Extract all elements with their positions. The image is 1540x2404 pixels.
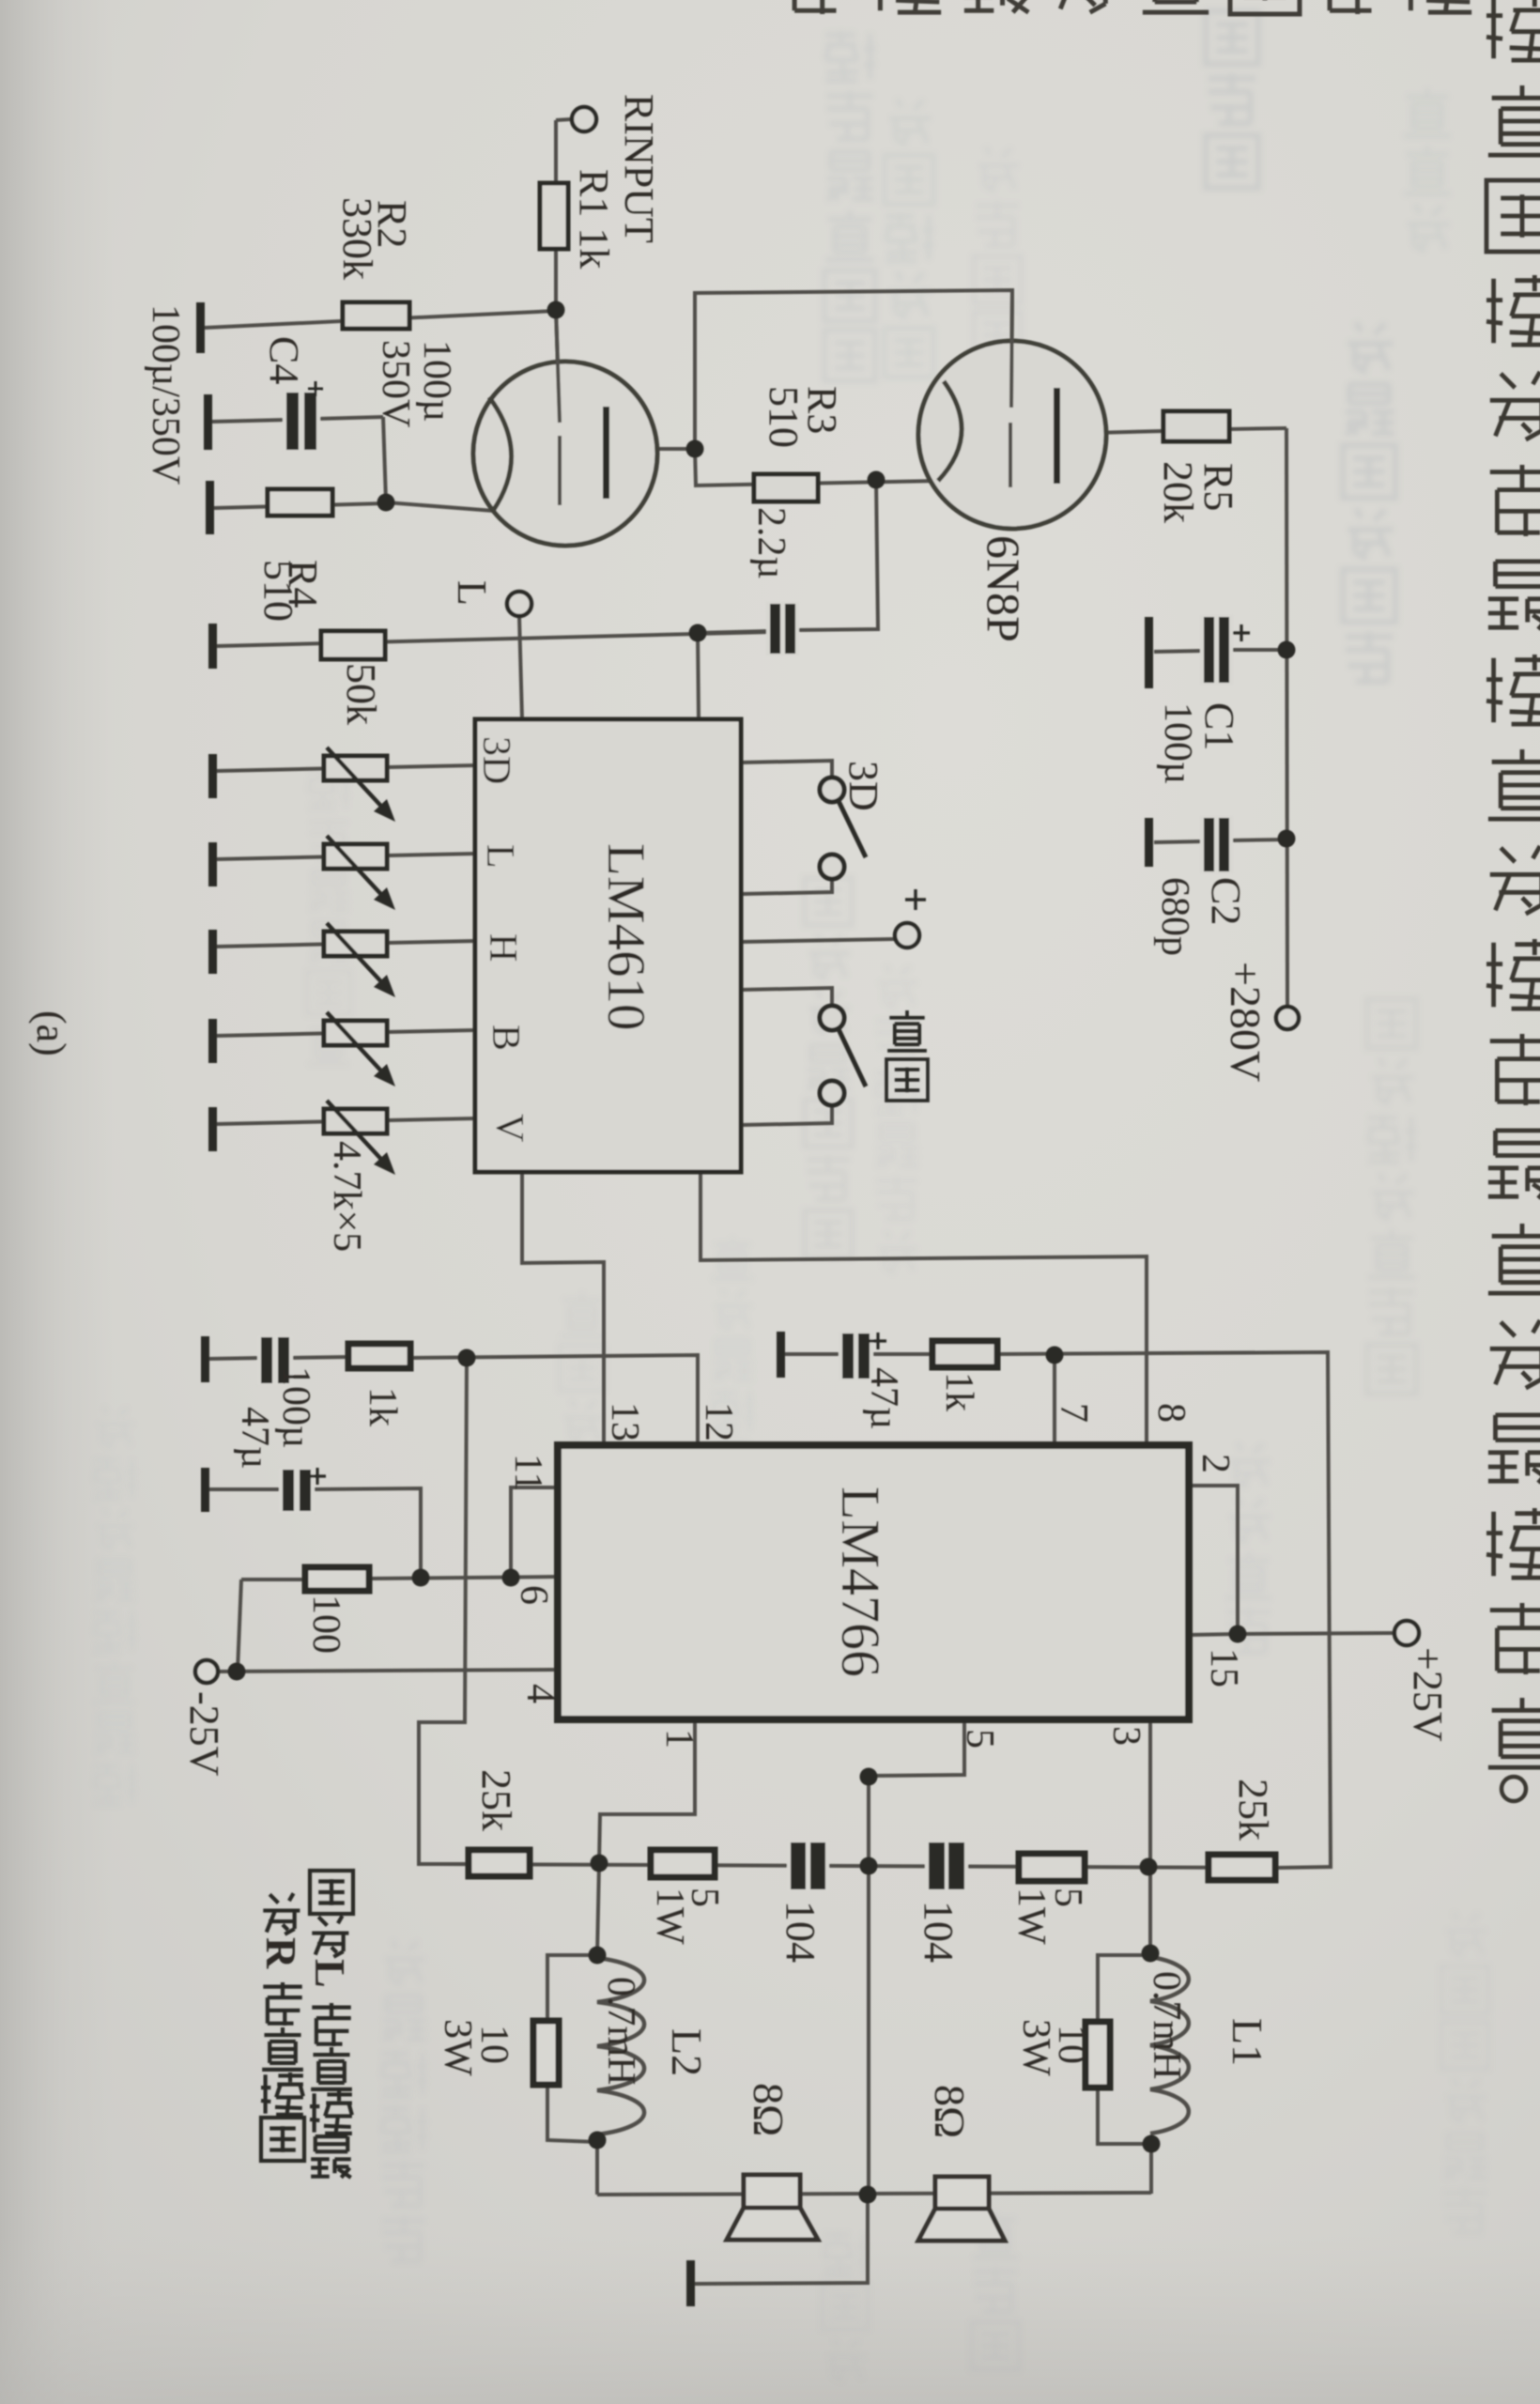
svg-text:2: 2	[1193, 1454, 1237, 1473]
svg-text:1k: 1k	[937, 1372, 980, 1411]
svg-text:LM4766: LM4766	[830, 1487, 891, 1677]
svg-text:510: 510	[761, 386, 807, 448]
svg-text:6N8P: 6N8P	[978, 535, 1030, 642]
svg-text:100: 100	[304, 1595, 347, 1654]
svg-text:47µ: 47µ	[233, 1407, 276, 1469]
svg-text:L2: L2	[663, 2028, 711, 2076]
svg-text:V: V	[487, 1114, 531, 1142]
svg-text:15: 15	[1202, 1648, 1245, 1687]
svg-text:C4: C4	[261, 336, 307, 384]
svg-text:11: 11	[506, 1454, 549, 1491]
svg-text:4.7k×5: 4.7k×5	[325, 1141, 368, 1252]
svg-text:100µ: 100µ	[1156, 702, 1199, 784]
svg-text:104: 104	[916, 1901, 962, 1963]
svg-text:0.7mH: 0.7mH	[1145, 1971, 1188, 2080]
svg-text:H: H	[481, 933, 524, 962]
svg-text:LM4610: LM4610	[596, 843, 655, 1031]
svg-text:7: 7	[1052, 1403, 1095, 1423]
svg-text:3W: 3W	[1014, 2019, 1057, 2076]
svg-text:1: 1	[657, 1729, 701, 1749]
svg-text:+25V: +25V	[1405, 1647, 1451, 1742]
svg-text:2.2µ: 2.2µ	[749, 507, 793, 579]
svg-text:5: 5	[958, 1729, 1001, 1749]
svg-text:(a): (a)	[28, 1010, 74, 1056]
svg-text:B: B	[484, 1025, 527, 1051]
svg-text:L: L	[478, 844, 521, 869]
svg-text:100µ: 100µ	[274, 1366, 317, 1448]
svg-text:0.7mH: 0.7mH	[599, 1977, 642, 2086]
svg-text:25k: 25k	[473, 1769, 519, 1831]
svg-text:3D: 3D	[474, 736, 517, 784]
svg-text:1W: 1W	[648, 1888, 691, 1945]
svg-text:100µ: 100µ	[415, 340, 458, 422]
svg-text:680p: 680p	[1153, 877, 1196, 956]
svg-text:1W: 1W	[1009, 1888, 1053, 1945]
svg-text:+280V: +280V	[1222, 962, 1270, 1082]
svg-text:25k: 25k	[1230, 1779, 1276, 1841]
svg-text:-25V: -25V	[181, 1691, 227, 1777]
svg-text:8Ω: 8Ω	[926, 2085, 974, 2138]
svg-text:3D: 3D	[840, 761, 886, 811]
svg-text:R5: R5	[1195, 463, 1241, 511]
svg-text:C1: C1	[1196, 702, 1242, 750]
svg-text:350V: 350V	[374, 340, 417, 427]
svg-text:8Ω: 8Ω	[745, 2083, 793, 2136]
svg-text:510: 510	[255, 560, 301, 622]
svg-text:330k: 330k	[334, 197, 380, 280]
svg-text:12: 12	[697, 1402, 740, 1441]
svg-text:20k: 20k	[1155, 461, 1201, 523]
svg-text:50k: 50k	[338, 663, 384, 725]
svg-text:8: 8	[1149, 1403, 1193, 1423]
svg-text:3: 3	[1104, 1726, 1147, 1746]
svg-text:1k: 1k	[361, 1387, 404, 1426]
svg-text:L: L	[306, 1959, 354, 1988]
svg-text:L: L	[449, 580, 495, 606]
svg-text:6: 6	[512, 1585, 555, 1605]
svg-text:13: 13	[603, 1402, 646, 1441]
svg-text:R: R	[257, 1937, 305, 1969]
svg-text:RINPUT: RINPUT	[616, 94, 662, 243]
svg-text:47µ: 47µ	[862, 1367, 905, 1429]
svg-text:C2: C2	[1203, 877, 1249, 925]
svg-text:100µ/350V: 100µ/350V	[144, 304, 187, 485]
svg-text:4: 4	[518, 1684, 562, 1703]
svg-text:L1: L1	[1224, 2018, 1271, 2066]
svg-text:3W: 3W	[436, 2019, 479, 2076]
svg-text:104: 104	[778, 1901, 824, 1963]
svg-text:R1 1k: R1 1k	[571, 169, 617, 269]
